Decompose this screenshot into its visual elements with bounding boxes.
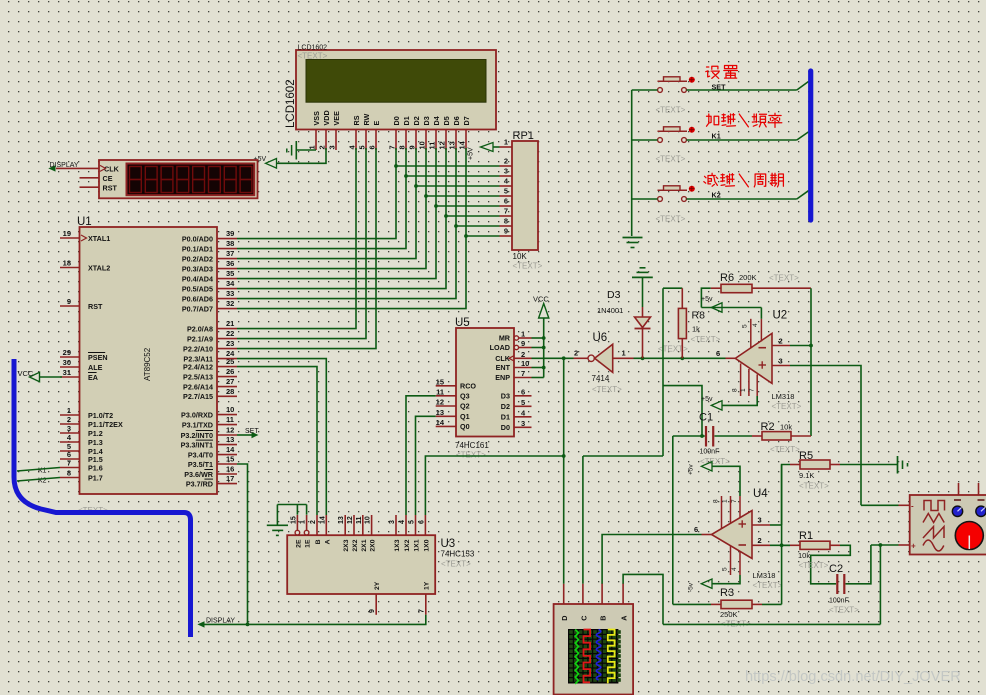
pin stub U3 A bbox=[325, 515, 327, 535]
svg-text:7: 7 bbox=[67, 459, 71, 468]
pin stub U5 D2 bbox=[514, 405, 532, 407]
svg-text:RST: RST bbox=[88, 302, 103, 311]
pin stub U1 P3.0/RXD (pin 10) bbox=[217, 414, 237, 416]
junction VCC/MR bbox=[542, 336, 546, 340]
push button SET bbox=[658, 80, 688, 82]
svg-text:-5v: -5v bbox=[688, 582, 695, 592]
svg-text:9.1K: 9.1K bbox=[799, 471, 814, 480]
wire U5 CLK to U6 out bbox=[532, 357, 574, 359]
wire LCD D1 column bbox=[237, 148, 406, 249]
wire R3 left bbox=[673, 603, 711, 605]
pin stub U1 P3.3/INT1 (pin 13) bbox=[217, 444, 237, 446]
svg-text:3: 3 bbox=[758, 516, 762, 525]
svg-text:B: B bbox=[599, 616, 608, 621]
svg-text:2: 2 bbox=[574, 349, 578, 358]
svg-text:1: 1 bbox=[622, 349, 626, 358]
scope trace green (triangle) bbox=[575, 630, 578, 684]
wire R5 to ground bbox=[840, 464, 897, 466]
junction R8 node bbox=[680, 356, 684, 360]
svg-text:D3: D3 bbox=[607, 289, 621, 301]
svg-text:2: 2 bbox=[67, 415, 71, 424]
junction pin2/feedback bbox=[809, 344, 813, 348]
svg-text:8: 8 bbox=[713, 499, 720, 503]
svg-text:Q3: Q3 bbox=[460, 391, 470, 400]
pin stub U1 EA (pin 31) bbox=[60, 376, 80, 378]
pin stub U3 1X2 bbox=[405, 515, 407, 535]
pin stub U2 8 (bottom) bbox=[740, 364, 742, 397]
LCD pin stub 13 (D6) bbox=[455, 130, 457, 151]
mcu U1 body bbox=[80, 227, 218, 494]
svg-text:14: 14 bbox=[436, 418, 445, 427]
counter U5 body bbox=[456, 328, 514, 437]
pin stub RP1 1 bbox=[500, 146, 513, 148]
pin stub U2 5 (top) bbox=[750, 319, 752, 349]
pin stub RP1 4 bbox=[500, 185, 513, 187]
pin stub R6 left bbox=[711, 287, 721, 289]
wire (LCD control column) bbox=[237, 148, 366, 339]
resistor R1 body bbox=[800, 541, 830, 549]
svg-text:3: 3 bbox=[389, 520, 396, 524]
wire scope A riser bbox=[623, 574, 663, 624]
pin stub R8 bottom bbox=[681, 339, 683, 359]
power -5V (U4 bottom) bbox=[701, 579, 712, 588]
pin stub U1 P3.5 bbox=[217, 463, 237, 465]
pin stub U1 P2 bbox=[217, 338, 237, 340]
svg-text:K2: K2 bbox=[712, 191, 721, 200]
svg-text:200K: 200K bbox=[739, 273, 757, 282]
capacitor C2 bbox=[836, 574, 838, 594]
U5 CLK wedge bbox=[509, 356, 514, 361]
wire R5 left elbow bbox=[782, 465, 790, 526]
wire P2.4 to U3 B bbox=[237, 367, 317, 515]
generator knob small 1 bbox=[952, 506, 962, 516]
svg-text:14: 14 bbox=[458, 140, 467, 149]
svg-text:1X2: 1X2 bbox=[404, 539, 411, 551]
wire ground to D3 anode bbox=[642, 277, 644, 307]
svg-text:1E: 1E bbox=[305, 539, 312, 548]
LCD pin stub 8 (D1) bbox=[405, 130, 407, 151]
ground (LCD VSS) bbox=[295, 141, 297, 160]
svg-text:<TEXT>: <TEXT> bbox=[656, 155, 686, 164]
svg-text:A: A bbox=[620, 616, 629, 621]
pin stub U1 P3.2 bbox=[217, 434, 237, 436]
wire D2 branch to RP1 pin 4 bbox=[416, 185, 500, 187]
pin stub U6 pin2 bbox=[574, 357, 589, 359]
pin stub U5 D1 bbox=[514, 416, 532, 418]
generator pin stub top2 bbox=[978, 483, 980, 495]
svg-text:VCC: VCC bbox=[533, 295, 549, 304]
pin stub U1 P0.2 bbox=[217, 258, 237, 260]
svg-text:15: 15 bbox=[226, 455, 234, 464]
svg-text:EA: EA bbox=[88, 373, 98, 382]
svg-text:6: 6 bbox=[504, 197, 508, 206]
svg-text:100nF: 100nF bbox=[829, 598, 849, 605]
pin stub scope C bbox=[582, 584, 584, 604]
pin stub U1 P0.0 bbox=[217, 238, 237, 240]
overline INT1 bbox=[196, 439, 213, 441]
junction C1/INT-elbow bbox=[700, 434, 704, 438]
pin stub U3 1X1 bbox=[415, 515, 417, 535]
U4 minus bbox=[739, 544, 747, 546]
svg-text:2: 2 bbox=[310, 520, 317, 524]
svg-text:MR: MR bbox=[499, 334, 511, 343]
power VCC (U5) bbox=[539, 304, 549, 319]
svg-text:RST: RST bbox=[103, 184, 118, 193]
svg-text:2E: 2E bbox=[295, 539, 302, 548]
svg-text:9: 9 bbox=[521, 339, 525, 348]
pin stub U2 pin3 bbox=[772, 365, 790, 367]
overline WR bbox=[204, 469, 213, 471]
svg-text:P3.0/RXD: P3.0/RXD bbox=[181, 410, 213, 419]
svg-text:35: 35 bbox=[226, 269, 234, 278]
wire U2 pin2 to feedback bbox=[790, 345, 811, 347]
svg-text:P2.7/A15: P2.7/A15 bbox=[183, 392, 213, 401]
pin stub 7-seg RST bbox=[80, 186, 100, 188]
wire R3-R1 vertical bbox=[781, 465, 783, 605]
svg-text:15: 15 bbox=[290, 516, 297, 524]
wire U4 out to scope B bbox=[602, 535, 701, 585]
wire R6 right bbox=[752, 287, 811, 289]
wire D6 branch to RP1 pin 8 bbox=[456, 225, 500, 227]
svg-text:PSEN: PSEN bbox=[88, 353, 108, 362]
svg-text:AT89C52: AT89C52 bbox=[143, 347, 152, 381]
svg-text:LOAD: LOAD bbox=[490, 343, 510, 352]
svg-text:RS: RS bbox=[352, 115, 361, 125]
svg-text:R2: R2 bbox=[761, 421, 775, 433]
svg-text:<TEXT>: <TEXT> bbox=[799, 561, 829, 570]
svg-text:10K: 10K bbox=[513, 252, 528, 261]
svg-text:16: 16 bbox=[226, 465, 234, 474]
U2 minus bbox=[759, 347, 767, 349]
svg-text:26: 26 bbox=[226, 367, 234, 376]
pin stub R1 left bbox=[790, 544, 800, 546]
resistor R2 body bbox=[762, 432, 791, 440]
pin stub U1 P1.2 (pin 3) bbox=[60, 432, 80, 434]
junction D3 node bbox=[641, 356, 645, 360]
svg-text:+5v: +5v bbox=[701, 296, 713, 303]
LCD pin stub 4 (RS) bbox=[355, 130, 357, 151]
LCD1602 screen bbox=[306, 60, 486, 103]
pin stub U1 P0.7 bbox=[217, 308, 237, 310]
label 设置 (Chinese, set) bbox=[706, 66, 720, 78]
generator pin stub top1 bbox=[958, 483, 960, 495]
pin stub U1 P0.4 bbox=[217, 278, 237, 280]
pin stub U4 7 (top) bbox=[739, 496, 741, 518]
svg-text:1X3: 1X3 bbox=[394, 539, 401, 551]
pin stub U1 P1.3 (pin 4) bbox=[60, 441, 80, 443]
svg-text:7: 7 bbox=[749, 388, 756, 392]
svg-text:14: 14 bbox=[226, 445, 235, 454]
resistor pack RP1 body bbox=[512, 141, 538, 250]
LCD pin stub 14 (D7) bbox=[465, 130, 467, 151]
7-seg digit 5 bbox=[193, 167, 205, 180]
pin stub U3 2E bbox=[296, 515, 298, 530]
junction pin2/R3/R1 bbox=[780, 543, 784, 547]
svg-text:74HC161: 74HC161 bbox=[455, 441, 489, 450]
wire U2 pin4 to +5V bbox=[760, 308, 762, 319]
svg-text:2: 2 bbox=[758, 536, 762, 545]
svg-text:C1: C1 bbox=[699, 412, 713, 424]
svg-text:<TEXT>: <TEXT> bbox=[656, 106, 686, 115]
svg-text:-: - bbox=[911, 502, 914, 511]
wire U4 pin4 to -5V bbox=[712, 575, 740, 584]
svg-text:1: 1 bbox=[504, 138, 508, 147]
pin stub U1 P3.6/WR (pin 16) bbox=[217, 473, 237, 475]
svg-text:U3: U3 bbox=[441, 538, 456, 550]
pin stub U4 pin2 bbox=[752, 544, 770, 546]
svg-text:13: 13 bbox=[448, 141, 457, 149]
wire U2 pin7 to +5V bbox=[722, 396, 757, 405]
wire LCD D3 column bbox=[237, 148, 426, 269]
svg-text:1X0: 1X0 bbox=[423, 539, 430, 551]
svg-text:9: 9 bbox=[369, 609, 376, 613]
svg-text:4: 4 bbox=[752, 323, 759, 327]
pin stub U3 1E bbox=[306, 515, 308, 530]
svg-text:LM318: LM318 bbox=[753, 571, 776, 580]
pin stub U1 P2.4 bbox=[217, 366, 237, 368]
scope trace red (square) bbox=[584, 630, 591, 683]
wire U6.1-D3-R8-U2.out bbox=[634, 357, 726, 359]
pin stub U3 2X0 bbox=[371, 515, 373, 535]
bus (blue, left) bbox=[14, 359, 191, 637]
LCD pin stub 12 (D5) bbox=[445, 130, 447, 151]
svg-text:+5V: +5V bbox=[468, 147, 475, 160]
pin stub U5 LOAD bbox=[519, 347, 532, 349]
svg-text:P2.6/A14: P2.6/A14 bbox=[183, 382, 213, 391]
svg-text:D3: D3 bbox=[422, 116, 431, 125]
svg-text:11: 11 bbox=[356, 516, 363, 524]
overline INT0 bbox=[196, 430, 213, 432]
svg-text:3: 3 bbox=[779, 357, 783, 366]
wire LCD D7 column bbox=[237, 148, 466, 309]
pin stub U6 pin1 bbox=[613, 357, 634, 359]
svg-text:P0.2/AD2: P0.2/AD2 bbox=[182, 254, 213, 263]
wire R6 left to +5V corner bbox=[701, 288, 710, 307]
LCD pin stub 10 (D3) bbox=[425, 130, 427, 151]
svg-text:23: 23 bbox=[226, 339, 234, 348]
svg-text:D0: D0 bbox=[392, 116, 401, 125]
wire button K1 diagonal bbox=[797, 132, 809, 140]
svg-text:9: 9 bbox=[504, 227, 508, 236]
junction CLK/1X0 bbox=[562, 454, 566, 458]
power VCC (U1 EA) bbox=[30, 372, 40, 381]
pin stub U1 P0.6 bbox=[217, 298, 237, 300]
svg-text:4: 4 bbox=[731, 567, 738, 571]
pin stub U3 B bbox=[316, 515, 318, 535]
svg-text:6: 6 bbox=[716, 349, 720, 358]
pin stub U2 output bbox=[726, 357, 736, 359]
svg-text:P1.3: P1.3 bbox=[88, 438, 103, 447]
svg-text:2X3: 2X3 bbox=[343, 539, 350, 551]
wire button SET left bbox=[632, 89, 658, 91]
bus terminal (blue, right) bbox=[808, 71, 813, 220]
7-seg digit 6 bbox=[209, 167, 221, 180]
U4 plus bbox=[739, 523, 747, 525]
svg-text:6: 6 bbox=[368, 145, 377, 149]
svg-text:9: 9 bbox=[67, 297, 71, 306]
wire CLK to U3 1X0 bbox=[425, 456, 563, 515]
svg-text:R5: R5 bbox=[799, 450, 813, 462]
wire generator minus bbox=[861, 504, 899, 506]
generator main knob bbox=[955, 522, 983, 550]
svg-text:E: E bbox=[372, 121, 381, 126]
wire D7 branch to RP1 pin 9 bbox=[466, 235, 500, 237]
svg-text:D2: D2 bbox=[412, 116, 421, 125]
svg-text:B: B bbox=[315, 539, 322, 544]
pin stub RP1 3 bbox=[500, 175, 513, 177]
svg-text:5: 5 bbox=[504, 187, 508, 196]
wire button bus vertical bbox=[631, 90, 633, 236]
svg-text:ALE: ALE bbox=[88, 363, 103, 372]
pin stub 7-seg CE bbox=[80, 177, 100, 179]
inverter U6 bubble bbox=[588, 355, 594, 361]
svg-text:17: 17 bbox=[226, 474, 234, 483]
svg-text:5: 5 bbox=[722, 567, 729, 571]
pin stub U5 MR bbox=[519, 337, 532, 339]
svg-text:SET: SET bbox=[245, 428, 259, 435]
svg-text:10k: 10k bbox=[798, 551, 810, 560]
op-amp U4 triangle bbox=[712, 511, 753, 559]
7-seg digit 1 bbox=[130, 167, 142, 180]
svg-text:28: 28 bbox=[226, 387, 234, 396]
svg-text:29: 29 bbox=[63, 348, 71, 357]
svg-text:P2.1/A9: P2.1/A9 bbox=[187, 334, 213, 343]
svg-text:XTAL2: XTAL2 bbox=[88, 263, 110, 272]
pin stub U5 D3 bbox=[514, 395, 532, 397]
svg-text:32: 32 bbox=[226, 299, 234, 308]
svg-text:P1.7: P1.7 bbox=[88, 473, 103, 482]
svg-text:VCC: VCC bbox=[18, 369, 34, 378]
overline EA bbox=[88, 372, 97, 374]
U3 2E bubble bbox=[295, 530, 300, 535]
wire (LCD control column) bbox=[237, 148, 356, 329]
svg-text:5: 5 bbox=[742, 324, 749, 328]
pin stub U4 8 (top) bbox=[721, 496, 723, 529]
wire LCD pin1 to ground bbox=[296, 149, 316, 151]
pin stub RP1 2 bbox=[500, 165, 513, 167]
wire button K1 left bbox=[632, 139, 658, 141]
svg-text:2X0: 2X0 bbox=[370, 539, 377, 551]
svg-text:VDD: VDD bbox=[322, 110, 331, 125]
svg-text:P3.5/T1: P3.5/T1 bbox=[188, 460, 213, 469]
7-seg digit 3 bbox=[161, 167, 173, 180]
wire U5 ENT to VCC rail bbox=[532, 367, 544, 369]
pin stub U1 RST (pin 9) bbox=[60, 305, 80, 307]
svg-text:5: 5 bbox=[521, 398, 525, 407]
U5 MR bubble bbox=[514, 336, 518, 340]
junction plus node bbox=[879, 543, 883, 547]
svg-text:<TEXT>: <TEXT> bbox=[770, 445, 800, 454]
svg-text:D4: D4 bbox=[432, 116, 441, 125]
svg-text:7: 7 bbox=[504, 207, 508, 216]
svg-text:+5v: +5v bbox=[688, 464, 695, 475]
svg-text:<TEXT>: <TEXT> bbox=[799, 482, 829, 491]
junction D0/RP1 bbox=[394, 164, 398, 168]
svg-text:CLK: CLK bbox=[104, 165, 120, 174]
op-amp U2 triangle bbox=[735, 333, 772, 383]
wire U5 ENP to VCC rail bbox=[532, 377, 544, 379]
net label DISPLAY (arrow) bbox=[48, 165, 55, 171]
pin stub U4 4 (bottom) bbox=[739, 552, 741, 576]
pin stub RP1 5 bbox=[500, 195, 513, 197]
power +5V (U2 bottom) bbox=[711, 401, 722, 410]
ground (D3, inverted) bbox=[640, 267, 646, 269]
svg-text:5: 5 bbox=[358, 145, 367, 149]
pin stub U1 PSEN (pin 29) bbox=[60, 356, 80, 358]
svg-text:7: 7 bbox=[521, 369, 525, 378]
wire scope C down bbox=[582, 456, 584, 584]
svg-text:D5: D5 bbox=[442, 116, 451, 125]
svg-text:D: D bbox=[560, 616, 569, 621]
svg-text:DISPLAY: DISPLAY bbox=[50, 162, 79, 169]
wire scope D (CLK) down bbox=[563, 358, 565, 583]
svg-text:U5: U5 bbox=[455, 317, 470, 329]
svg-text:2: 2 bbox=[779, 337, 783, 346]
svg-text:3: 3 bbox=[504, 167, 508, 176]
pin stub R1 right bbox=[830, 544, 840, 546]
overline RD bbox=[204, 478, 213, 480]
wire R1 left bbox=[782, 544, 790, 546]
svg-text:4: 4 bbox=[399, 520, 406, 524]
junction D3/RP1 bbox=[424, 194, 428, 198]
pin stub U1 P0.3 bbox=[217, 268, 237, 270]
pin stub U5 Q0 bbox=[436, 425, 456, 427]
svg-text:2: 2 bbox=[521, 350, 525, 359]
inverter U6 triangle bbox=[595, 344, 613, 372]
svg-text:R1: R1 bbox=[799, 530, 813, 542]
wire U5 Q3 to U3 1X2 bbox=[406, 396, 436, 515]
pin stub U5 D0 bbox=[514, 426, 532, 428]
svg-text:P1.6: P1.6 bbox=[88, 463, 103, 472]
svg-text:U2: U2 bbox=[773, 310, 788, 322]
svg-text:39: 39 bbox=[226, 229, 234, 238]
power +5V (RP1) bbox=[481, 143, 494, 152]
LCD pin stub 6 (E) bbox=[375, 130, 377, 151]
pin stub U5 ENT bbox=[514, 367, 532, 369]
svg-text:8: 8 bbox=[67, 469, 71, 478]
svg-text:P3.2/INT0: P3.2/INT0 bbox=[181, 431, 213, 440]
signal generator body bbox=[910, 495, 986, 555]
svg-text:1: 1 bbox=[308, 145, 317, 149]
svg-text:https://blog.csdn.net/DIY_JOVE: https://blog.csdn.net/DIY_JOVER bbox=[745, 669, 961, 685]
resistor R3 body bbox=[721, 600, 752, 608]
svg-text:10: 10 bbox=[418, 141, 427, 149]
svg-text:38: 38 bbox=[226, 239, 234, 248]
pin stub U1 P1.1/T2EX (pin 2) bbox=[60, 423, 80, 425]
LCD1602 display U-LCD body bbox=[296, 50, 496, 130]
svg-text:D1: D1 bbox=[402, 116, 411, 125]
svg-text:D7: D7 bbox=[462, 116, 471, 125]
junction D6/RP1 bbox=[454, 224, 458, 228]
svg-text:1: 1 bbox=[722, 499, 729, 503]
wire (LCD control column) bbox=[237, 148, 376, 349]
wire U4 pin2 node bbox=[770, 544, 790, 546]
svg-text:SET: SET bbox=[712, 83, 727, 92]
wire K2 diagonal bbox=[17, 478, 60, 482]
U3 1E bubble bbox=[304, 530, 309, 535]
LCD pin stub 11 (D4) bbox=[435, 130, 437, 151]
7-seg digit 7 bbox=[224, 167, 236, 180]
pin stub U1 P2 bbox=[217, 348, 237, 350]
wire LCD D4 column bbox=[237, 148, 436, 279]
ground (U3 enables) bbox=[267, 524, 288, 526]
wire DISPLAY net to 7-seg CLK bbox=[56, 167, 99, 169]
resistor R5 body bbox=[800, 460, 830, 469]
ground (buttons) bbox=[623, 237, 643, 239]
pin stub U5 CLK bbox=[514, 357, 532, 359]
pin stub U3 2X2 bbox=[353, 515, 355, 535]
pin stub generator + bbox=[899, 544, 910, 546]
